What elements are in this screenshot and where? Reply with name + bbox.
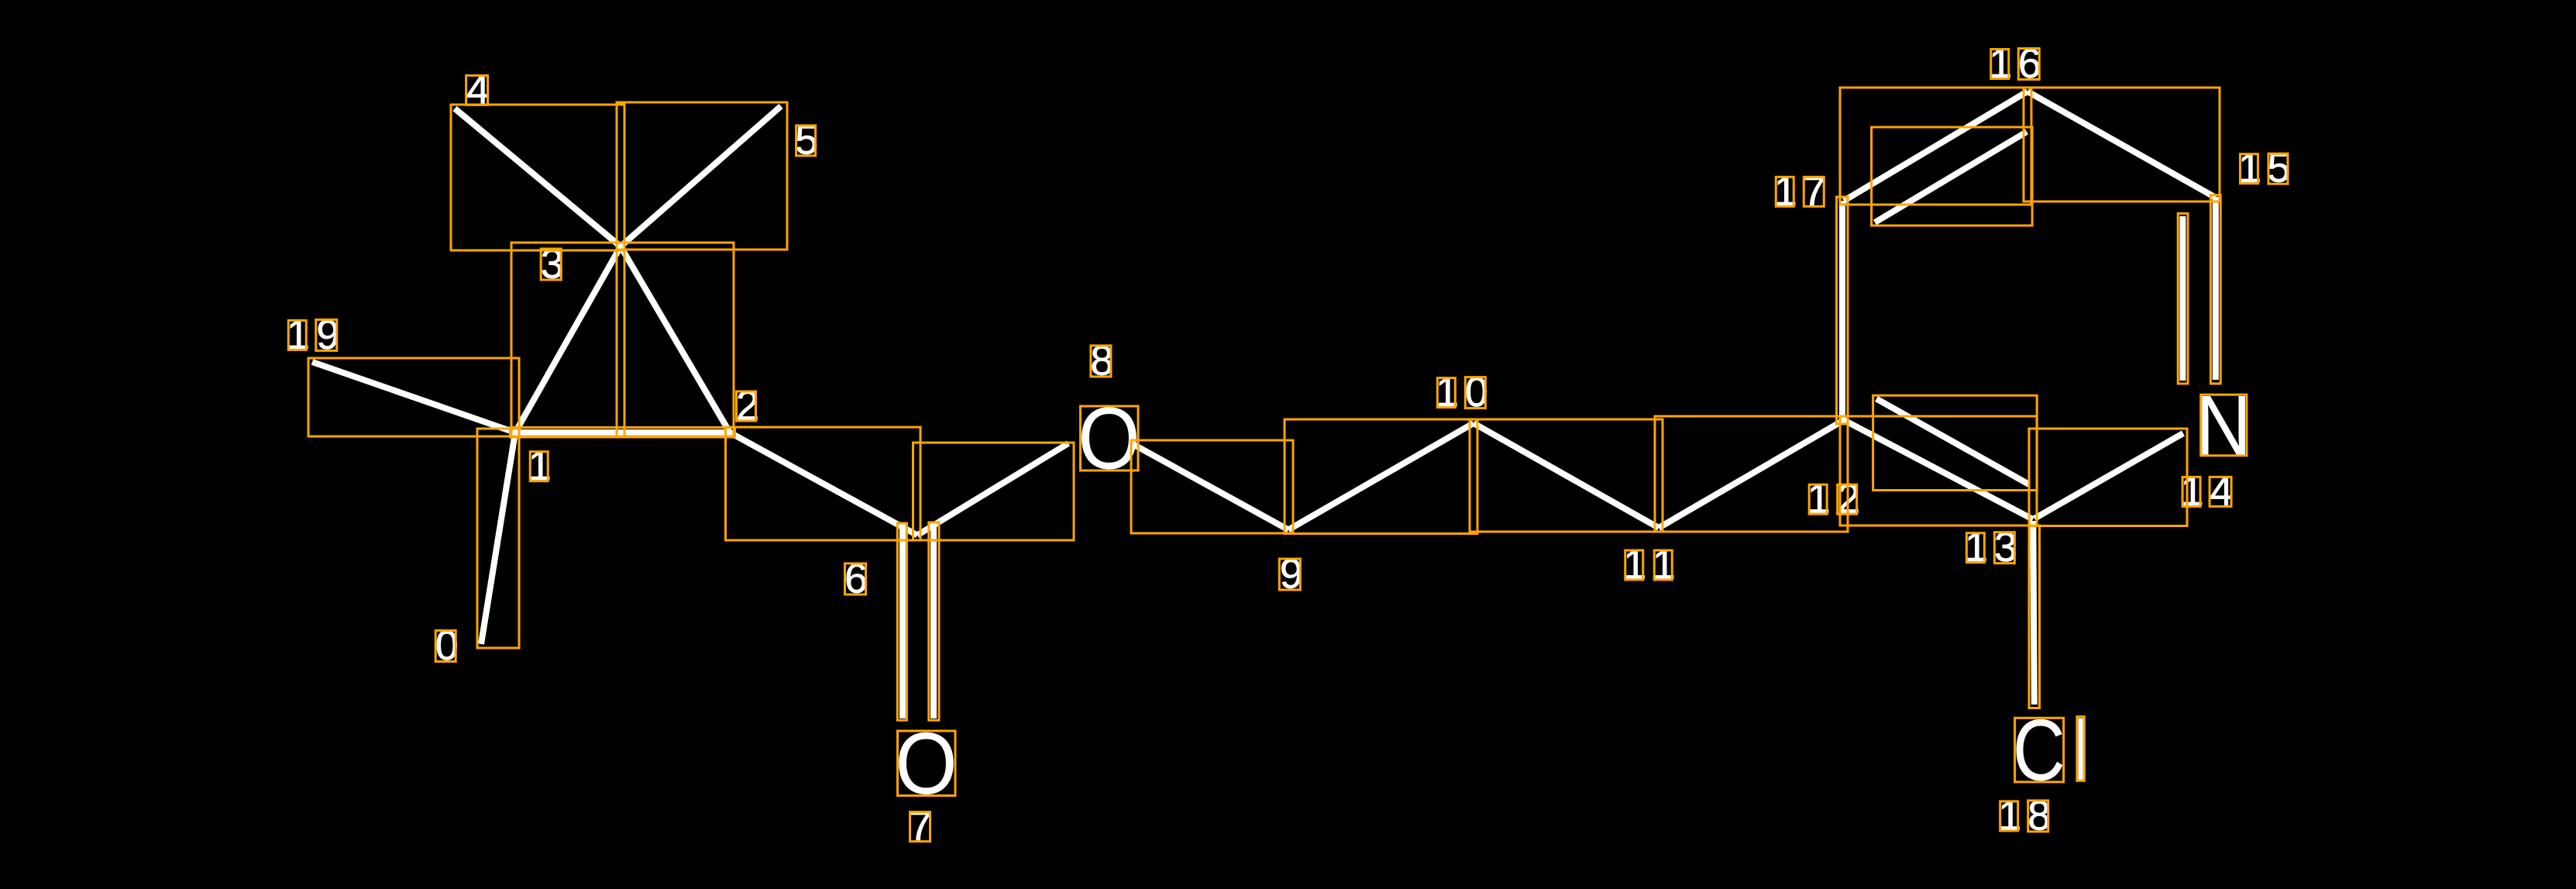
svg-text:C: C: [2013, 701, 2065, 799]
svg-text:N: N: [2196, 378, 2251, 473]
